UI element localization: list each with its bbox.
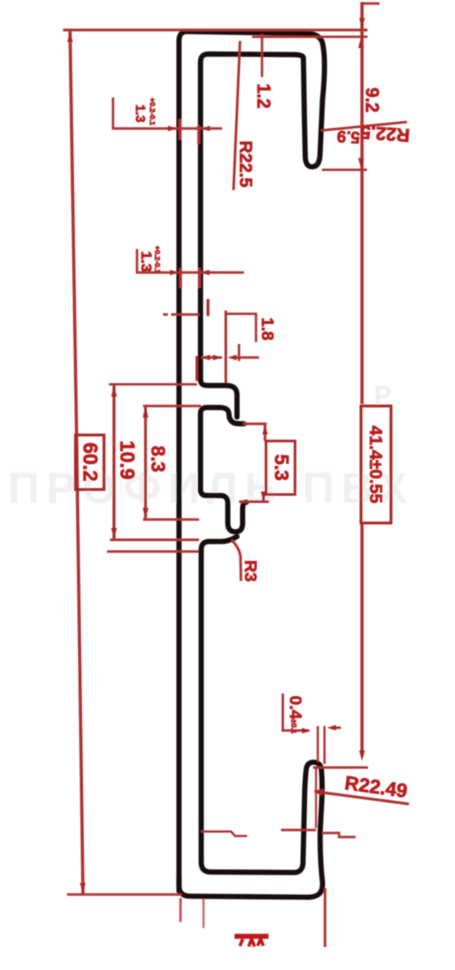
red dimension graphics — [63, 2, 409, 947]
0.4 arrows — [302, 728, 311, 734]
R22.5 second leader diagonal — [321, 122, 407, 131]
10.9 arrows — [111, 386, 117, 397]
1.3 lower arrows — [170, 270, 179, 276]
8.3 bottom extension — [143, 518, 199, 521]
arrowheads — [67, 18, 365, 894]
bottom cut-off boxed dimension mark — [235, 934, 269, 939]
0.4 leader L — [283, 694, 309, 731]
0.4 tail — [334, 727, 341, 729]
1.8 tail — [236, 344, 259, 361]
svg-text:5.9: 5.9 — [336, 127, 360, 147]
dim 1.3 lower ticks — [181, 268, 209, 316]
leg tip extension — [322, 169, 367, 171]
10.9 top extension — [109, 383, 197, 385]
svg-text:ПРОФИЛЬ ПВХ: ПРОФИЛЬ ПВХ — [8, 464, 415, 513]
R3 leader — [232, 540, 242, 581]
svg-text:±0.1: ±0.1 — [290, 719, 299, 734]
svg-text:10.9: 10.9 — [116, 441, 138, 480]
41.4 arrows — [359, 18, 365, 29]
R22.5 upper leader — [234, 41, 241, 190]
dim 1.3 upper ticks on wall — [180, 119, 199, 144]
dimension boxes — [76, 406, 392, 523]
svg-text:R22.5: R22.5 — [236, 141, 256, 188]
profile outline: left wall, top arm, right leg (black) — [179, 32, 325, 898]
5.3 connectors — [239, 424, 269, 502]
41.4 top tick — [362, 2, 380, 4]
top extension line A — [63, 29, 368, 32]
5.3 arrows — [262, 425, 268, 435]
41.4 bottom extension — [313, 766, 368, 768]
lower hook bottom + lower wall + bottom bar + curved lip — [179, 537, 323, 898]
1.8 arrows — [201, 355, 210, 361]
1.2 leader — [261, 34, 263, 77]
svg-text:+0.2: +0.2 — [148, 98, 157, 113]
lip inner extension vertical — [315, 768, 317, 828]
svg-text:0.4: 0.4 — [286, 696, 305, 720]
9.2 arrows — [358, 38, 364, 49]
1.8 dimension line — [201, 356, 222, 358]
svg-text:R22.5: R22.5 — [360, 122, 411, 146]
60.2 dimension line — [70, 31, 83, 894]
svg-text:-0.1: -0.1 — [148, 113, 157, 126]
svg-text:-0.1: -0.1 — [153, 261, 162, 274]
41.4 dimension line — [360, 2, 363, 754]
svg-text:R3: R3 — [241, 560, 260, 582]
10.9 bottom extension — [110, 538, 199, 541]
1.3 upper arrows — [168, 126, 177, 132]
10.9 dimension line — [113, 385, 116, 540]
jog line left — [201, 832, 247, 837]
60.2 arrows — [67, 32, 73, 43]
tick across wall y314 — [163, 313, 200, 316]
0.4 extension verticals — [318, 726, 325, 764]
svg-text:1.3: 1.3 — [138, 251, 155, 272]
top extension line B — [252, 36, 368, 38]
box 60.2 — [76, 435, 105, 490]
R22.49 leader — [315, 792, 409, 805]
1.8 leader L — [226, 314, 256, 342]
svg-text:R22.49: R22.49 — [343, 772, 408, 803]
8.3 arrows — [143, 407, 149, 418]
extra extension line — [107, 550, 199, 552]
svg-text:8.3: 8.3 — [147, 446, 168, 472]
svg-text:1.2: 1.2 — [254, 83, 274, 108]
bottom extension line — [67, 893, 182, 896]
svg-text:1.3: 1.3 — [133, 104, 148, 122]
svg-text:1.8: 1.8 — [258, 318, 276, 341]
dim 1.3 upper: L lines — [113, 98, 222, 129]
1.8 left extension — [196, 356, 199, 381]
dimension texts — [79, 83, 411, 802]
dim 1.3 lower: L lines — [137, 249, 244, 273]
svg-text:+0.2: +0.2 — [153, 246, 162, 261]
8.3 dimension line — [144, 406, 147, 520]
svg-text:9.2: 9.2 — [362, 87, 382, 112]
bottom extension verticals — [179, 898, 181, 922]
jog line right — [281, 830, 356, 837]
1.8: nub extension vertical — [225, 311, 228, 384]
svg-text:60.2: 60.2 — [79, 443, 101, 482]
box 5.3 — [266, 441, 295, 495]
svg-text:41.4±0.55: 41.4±0.55 — [366, 426, 386, 504]
R22.49 arrowhead — [314, 789, 325, 797]
upper hook lower surface + wall between hooks — [201, 408, 247, 532]
box 41.4±0.55 — [361, 406, 391, 523]
svg-text:5.3: 5.3 — [270, 454, 291, 480]
upper hook of middle groove — [201, 375, 238, 417]
8.3 top extension — [143, 405, 201, 407]
